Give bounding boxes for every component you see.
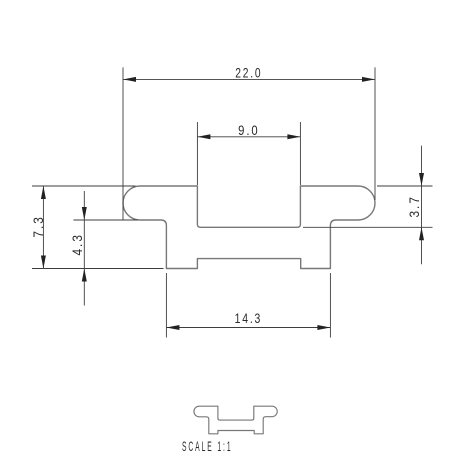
dimension 14.3 arrowheads [166, 325, 330, 330]
small scale view outline (SCALE 1:1) [194, 406, 277, 434]
svg-text:3.7: 3.7 [406, 195, 422, 218]
dimension 4.3 arrowheads [82, 207, 87, 282]
svg-text:SCALE 1:1: SCALE 1:1 [182, 438, 233, 454]
dimension 7.3 extension lines [32, 186, 164, 269]
dimension 9.0 line [197, 136, 300, 138]
dimension 14.3 line [166, 327, 330, 329]
svg-text:4.3: 4.3 [69, 233, 85, 256]
svg-text:7.3: 7.3 [30, 215, 46, 238]
svg-text:22.0: 22.0 [235, 64, 262, 80]
dimension 7.3 line [42, 186, 44, 269]
dimension 3.7 arrowheads [419, 173, 424, 240]
svg-text:9.0: 9.0 [238, 122, 260, 138]
dimension 9.0 extension lines [197, 122, 300, 185]
dimension 14.3 extension lines [166, 273, 330, 338]
dimension 22.0 line [123, 78, 375, 80]
dimension 22.0 extension lines [123, 67, 375, 219]
dimension 4.3 extension line [73, 219, 138, 221]
svg-text:14.3: 14.3 [235, 310, 263, 326]
dimension 9.0 arrowheads [197, 134, 300, 139]
dimension 7.3 arrowheads [41, 186, 46, 269]
dimension 4.3 line [83, 191, 85, 306]
dimension 3.7 line [421, 146, 423, 265]
dimension 3.7 extension lines [303, 186, 433, 227]
profile outline (main enlarged section view) [123, 186, 375, 269]
dimension 22.0 arrowheads [123, 77, 375, 82]
